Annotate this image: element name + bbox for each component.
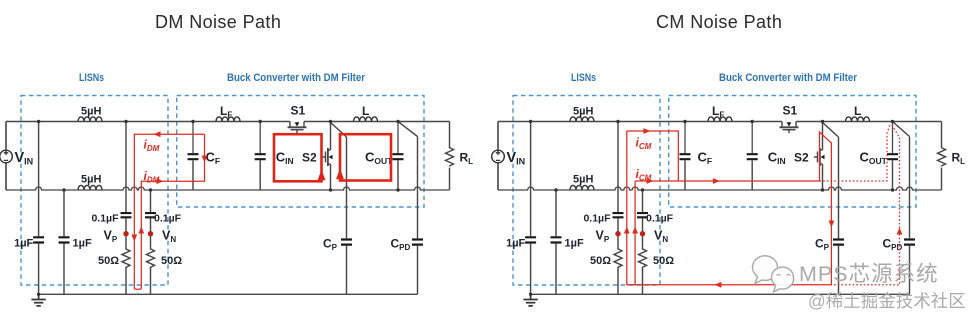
junction (CM) bbox=[683, 120, 686, 123]
inductor 5uH top (DM) bbox=[78, 117, 102, 122]
junction (CM) bbox=[529, 293, 532, 296]
wire P measuring branch (CM) bbox=[617, 122, 619, 295]
transistor S2 (DM) bbox=[322, 148, 331, 166]
svg-text:0.1µF: 0.1µF bbox=[583, 213, 611, 225]
wire P measuring branch (DM) bbox=[125, 122, 127, 295]
Buck converter dashed box (DM) bbox=[177, 96, 424, 208]
capacitor C_PD (DM) bbox=[412, 240, 423, 245]
svg-text:1µF: 1µF bbox=[73, 238, 92, 250]
arrow loop2 (up) bbox=[336, 168, 344, 179]
wire top rail (DM) bbox=[6, 121, 450, 123]
svg-text:S1: S1 bbox=[783, 104, 798, 118]
LISN dashed box (CM) bbox=[513, 96, 660, 286]
capacitor C_IN (CM) bbox=[747, 122, 758, 191]
inductor 5uH bottom (CM) bbox=[570, 185, 594, 190]
wire 1uF-1 branch (CM) bbox=[530, 122, 532, 295]
resistor 50ohm #1 (CM) bbox=[614, 247, 622, 269]
node V_P (CM) bbox=[615, 231, 620, 236]
wire switch node (DM) bbox=[330, 122, 332, 191]
svg-text:0.1µF: 0.1µF bbox=[646, 213, 674, 225]
arrow i_CM up C_PD (up) bbox=[897, 228, 903, 235]
junction (CM) bbox=[751, 120, 754, 123]
resistor 50ohm #2 (CM) bbox=[639, 247, 647, 269]
DM noise loop 1 (C_IN / S2), thick red bbox=[274, 134, 322, 181]
arrow i_CM return (left) bbox=[714, 282, 721, 288]
inductor 5uH top (CM) bbox=[570, 117, 594, 122]
inductor L (CM) bbox=[846, 117, 870, 122]
junction (DM) bbox=[37, 120, 40, 123]
junction (CM) bbox=[891, 120, 894, 123]
arrow i_DM top (left) bbox=[154, 131, 161, 137]
wire load branch (DM) bbox=[449, 122, 451, 191]
junction (CM) bbox=[891, 188, 894, 191]
resistor 50ohm #1 (DM) bbox=[122, 247, 130, 269]
wire load branch (CM) bbox=[941, 122, 943, 191]
wire parasitic branch C_PD (DM) bbox=[398, 122, 418, 295]
inductor 5uH bottom (DM) bbox=[78, 185, 102, 190]
capacitor 1uF #2 (CM) bbox=[551, 237, 562, 242]
svg-text:Buck Converter with DM Filter: Buck Converter with DM Filter bbox=[227, 72, 366, 84]
junction (DM) bbox=[396, 188, 399, 191]
resistor 50ohm #2 (DM) bbox=[147, 247, 155, 269]
inductor L_F (CM) bbox=[708, 117, 732, 122]
arrow i_CM down into C_P (down) bbox=[829, 221, 835, 228]
ground (DM) bbox=[31, 294, 45, 306]
capacitor C_F (CM) bbox=[680, 122, 691, 191]
svg-text:5µH: 5µH bbox=[81, 174, 101, 186]
junction (DM) bbox=[329, 120, 332, 123]
svg-text:L: L bbox=[362, 104, 369, 118]
arrow i_CM lower (right) bbox=[647, 178, 654, 184]
wire parasitic branch C_PD (CM) bbox=[893, 122, 910, 295]
svg-text:5µH: 5µH bbox=[573, 174, 593, 186]
svg-text:Buck Converter with DM Filter: Buck Converter with DM Filter bbox=[719, 72, 858, 84]
watermark chat-bubble icon bbox=[753, 256, 794, 292]
resistor R_L (DM) bbox=[446, 146, 454, 166]
junction (DM) bbox=[149, 188, 152, 191]
svg-text:1µF: 1µF bbox=[506, 238, 525, 250]
wire i_CM solid path left/return (red) bbox=[627, 131, 832, 285]
capacitor C_IN (DM) bbox=[255, 122, 266, 191]
svg-text:CM Noise Path: CM Noise Path bbox=[656, 12, 782, 32]
svg-text:S1: S1 bbox=[291, 104, 306, 118]
wire parasitic branch C_P (DM) bbox=[331, 123, 347, 295]
capacitor 0.1uF #2 (DM) bbox=[145, 213, 156, 217]
svg-text:5µH: 5µH bbox=[81, 106, 101, 118]
junction (CM) bbox=[616, 120, 619, 123]
arrow i_CM up V_N branch bbox=[632, 227, 638, 234]
transistor S1 (CM) bbox=[780, 122, 799, 134]
svg-text:0.1µF: 0.1µF bbox=[154, 213, 182, 225]
wire parasitic branch C_P (CM) bbox=[823, 123, 839, 295]
transistor S1 (DM) bbox=[288, 122, 307, 134]
junction (DM) bbox=[37, 293, 40, 296]
ground (CM) bbox=[523, 294, 537, 306]
Buck converter dashed box (CM) bbox=[669, 96, 916, 208]
wire bottom ground rail (DM) bbox=[39, 293, 418, 295]
svg-text:0.1µF: 0.1µF bbox=[91, 213, 119, 225]
capacitor 1uF #1 (CM) bbox=[525, 237, 536, 242]
svg-text:50Ω: 50Ω bbox=[161, 255, 182, 267]
node V_N (DM) bbox=[148, 231, 153, 236]
wire 1uF-1 branch (DM) bbox=[38, 122, 40, 295]
DM noise loop 2 (C_OUT), thick red bbox=[340, 134, 391, 180]
svg-text:S2: S2 bbox=[302, 151, 317, 165]
capacitor 1uF #1 (DM) bbox=[33, 237, 44, 242]
capacitor 1uF #2 (DM) bbox=[59, 237, 70, 242]
transistor S2 (CM) bbox=[814, 148, 823, 166]
arrow loop1 (up) bbox=[318, 169, 326, 180]
svg-text:MPS芯源系统: MPS芯源系统 bbox=[799, 262, 939, 286]
capacitor 0.1uF #1 (DM) bbox=[121, 213, 132, 217]
wire i_CM lower line (red) bbox=[635, 181, 819, 285]
svg-text:S2: S2 bbox=[794, 151, 809, 165]
junction (DM) bbox=[329, 188, 332, 191]
svg-text:50Ω: 50Ω bbox=[590, 255, 611, 267]
capacitor C_PD (CM) bbox=[904, 240, 915, 245]
arrow i_DM bottom (right) bbox=[157, 178, 164, 184]
svg-text:L: L bbox=[854, 104, 861, 118]
capacitor C_P (CM) bbox=[833, 240, 844, 245]
junction (CM) bbox=[641, 188, 644, 191]
junction (CM) bbox=[821, 120, 824, 123]
arrow i_CM top (right) bbox=[644, 128, 651, 134]
capacitor C_OUT (DM) bbox=[393, 122, 404, 191]
inductor L (DM) bbox=[354, 117, 378, 122]
junction (CM) bbox=[821, 188, 824, 191]
capacitor 0.1uF #2 (CM) bbox=[637, 213, 648, 217]
arrow i_CM mid line (right) bbox=[713, 178, 720, 184]
wire top rail (CM) bbox=[498, 121, 942, 123]
arrow i_DM through C_F (down) bbox=[202, 156, 208, 163]
wire middle return rail (DM) bbox=[6, 187, 450, 190]
arrow i_CM up V_P branch bbox=[624, 227, 630, 234]
svg-text:LISNs: LISNs bbox=[571, 72, 596, 84]
node V_N (CM) bbox=[640, 231, 645, 236]
wire N measuring branch (CM) bbox=[642, 190, 644, 294]
capacitor C_F (DM) bbox=[188, 122, 199, 191]
wire bottom ground rail (CM) bbox=[531, 293, 910, 295]
svg-text:LISNs: LISNs bbox=[79, 72, 104, 84]
junction (DM) bbox=[124, 120, 127, 123]
wire i_DM measurement loop (red) bbox=[134, 134, 204, 289]
arrow i_DM down V_P branch bbox=[131, 235, 137, 242]
wire middle return rail (CM) bbox=[498, 187, 942, 190]
svg-text:1µF: 1µF bbox=[14, 238, 33, 250]
junction (CM) bbox=[529, 120, 532, 123]
voltage source V_IN (DM) bbox=[0, 122, 12, 191]
LISN dashed box (DM) bbox=[21, 96, 168, 286]
svg-text:DM Noise Path: DM Noise Path bbox=[155, 12, 281, 32]
inductor L_F (DM) bbox=[216, 117, 240, 122]
arrow i_DM up V_N branch bbox=[138, 227, 144, 234]
capacitor C_P (DM) bbox=[341, 240, 352, 245]
voltage source V_IN (CM) bbox=[492, 122, 505, 191]
junction (DM) bbox=[396, 120, 399, 123]
junction (DM) bbox=[259, 120, 262, 123]
svg-text:50Ω: 50Ω bbox=[653, 255, 674, 267]
capacitor C_OUT (CM) bbox=[887, 122, 898, 191]
resistor R_L (CM) bbox=[938, 146, 946, 166]
wire 1uF-2 branch (CM) bbox=[555, 190, 557, 294]
junction (DM) bbox=[62, 188, 65, 191]
svg-text:@稀土掘金技术社区: @稀土掘金技术社区 bbox=[808, 291, 966, 311]
wire i_CM upper branch (red) bbox=[627, 131, 679, 181]
junction (DM) bbox=[191, 120, 194, 123]
svg-text:1µF: 1µF bbox=[565, 238, 584, 250]
capacitor 0.1uF #1 (CM) bbox=[613, 213, 624, 217]
junction (CM) bbox=[554, 188, 557, 191]
svg-text:5µH: 5µH bbox=[573, 106, 593, 118]
svg-text:50Ω: 50Ω bbox=[98, 255, 119, 267]
node V_P (DM) bbox=[123, 231, 128, 236]
wire i_CM dotted path via C_OUT/C_PD (red dotted) bbox=[820, 124, 900, 285]
wire 1uF-2 branch (DM) bbox=[63, 190, 65, 294]
wire switch node (CM) bbox=[822, 122, 824, 191]
wire N measuring branch (DM) bbox=[150, 190, 152, 294]
